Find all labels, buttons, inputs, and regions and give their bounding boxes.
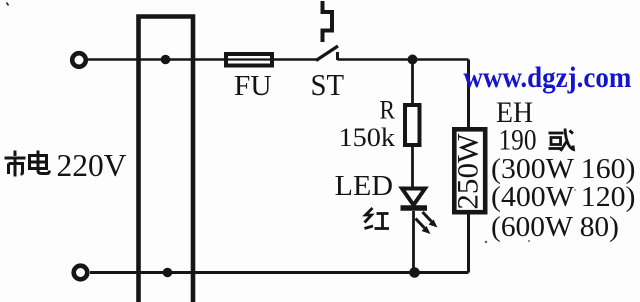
svg-text:ST: ST xyxy=(311,67,345,102)
svg-text:R: R xyxy=(380,96,396,125)
svg-text:250W: 250W xyxy=(452,133,485,210)
svg-text:220V: 220V xyxy=(57,147,127,183)
svg-text:190: 190 xyxy=(499,124,537,157)
svg-text:FU: FU xyxy=(234,70,272,102)
svg-text:(400W 120): (400W 120) xyxy=(491,181,636,213)
svg-text:LED: LED xyxy=(335,170,393,202)
svg-text:150k: 150k xyxy=(339,123,396,152)
svg-text:(600W 80): (600W 80) xyxy=(491,211,619,243)
svg-text:www.dgzj.com: www.dgzj.com xyxy=(463,61,631,94)
